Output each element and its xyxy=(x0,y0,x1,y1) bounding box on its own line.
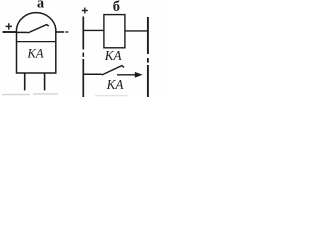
wire from plus to relay a xyxy=(3,31,17,33)
svg-text:КА: КА xyxy=(26,46,43,60)
contact blade circuit b xyxy=(102,66,124,75)
coil stub right xyxy=(125,30,148,32)
svg-text:КА: КА xyxy=(106,77,125,92)
exit wire dash xyxy=(66,31,69,33)
right bus wire lower part xyxy=(147,65,149,97)
left bus wire circuit b (with break) xyxy=(82,17,84,50)
right bus wire circuit b upper xyxy=(147,17,149,54)
right bus dash xyxy=(147,58,149,63)
right leg of relay a xyxy=(44,73,46,90)
relay case KA (dome + body) xyxy=(17,13,56,73)
svg-text:КА: КА xyxy=(104,48,123,63)
arrowhead xyxy=(135,72,143,78)
faint scan smudge bottom xyxy=(2,93,58,96)
relay coil rectangle KA xyxy=(104,15,125,48)
plus terminal circuit a xyxy=(6,23,12,29)
left leg of relay a xyxy=(24,73,26,90)
left bus dash xyxy=(82,53,84,57)
exit wire right of relay a xyxy=(56,31,65,33)
contact blade (open) xyxy=(28,25,49,33)
svg-text:а: а xyxy=(37,0,45,11)
divider line of relay case xyxy=(17,41,56,43)
faint scan smudge bottom right xyxy=(95,95,128,97)
coil stub left xyxy=(83,29,103,31)
contact fixed line inside dome xyxy=(17,31,28,33)
arrow line to right bus xyxy=(117,74,136,76)
left bus wire lower part xyxy=(82,59,84,97)
contact fixed line circuit b xyxy=(83,73,102,75)
plus terminal circuit b xyxy=(82,8,88,14)
svg-text:б: б xyxy=(113,0,120,15)
